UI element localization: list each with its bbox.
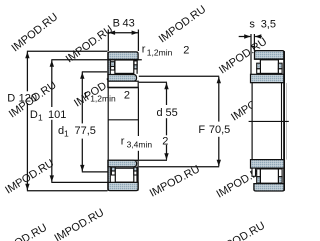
bore rectangle between halves xyxy=(108,88,138,160)
svg-text:D: D xyxy=(7,92,15,104)
cage top (right view) xyxy=(257,63,282,73)
svg-text:101: 101 xyxy=(48,109,66,121)
svg-text:s: s xyxy=(249,19,255,31)
rib lip top xyxy=(251,34,255,74)
rib lip bottom (right view) xyxy=(252,168,256,176)
cage lower right xyxy=(134,167,137,182)
r34min label xyxy=(121,135,169,149)
svg-text:77,5: 77,5 xyxy=(75,125,96,137)
F dimension line xyxy=(139,76,221,167)
svg-text:70,5: 70,5 xyxy=(209,124,230,136)
svg-text:55: 55 xyxy=(166,107,178,119)
svg-text:2: 2 xyxy=(183,44,189,56)
d dimension line xyxy=(139,82,169,160)
left edge lower xyxy=(107,160,109,190)
roller upper xyxy=(115,60,134,73)
B dimension xyxy=(108,30,138,52)
svg-text:r: r xyxy=(121,135,125,147)
svg-text:1,2min: 1,2min xyxy=(90,93,116,103)
roller top (right view) xyxy=(260,60,278,74)
svg-text:1: 1 xyxy=(38,113,43,123)
cage bottom (right view) xyxy=(257,169,282,183)
outer band bottom (right view) xyxy=(254,184,284,191)
svg-text:D: D xyxy=(30,109,38,121)
svg-text:d: d xyxy=(157,107,163,119)
svg-text:F: F xyxy=(198,124,205,136)
inner band top (right view) xyxy=(251,74,285,82)
left edge upper xyxy=(107,52,109,88)
lower bore line xyxy=(107,159,138,161)
outer ring upper band xyxy=(107,52,138,60)
svg-text:2: 2 xyxy=(124,89,130,101)
D1 dimension line xyxy=(50,60,142,183)
roller bottom (right view) xyxy=(260,169,278,183)
cage upper left xyxy=(111,62,115,70)
right edge lower xyxy=(137,160,139,190)
r12min label top right xyxy=(142,43,190,57)
svg-text:1: 1 xyxy=(64,129,69,139)
svg-text:43: 43 xyxy=(123,17,135,29)
bore box (right view) xyxy=(252,51,286,191)
svg-text:2: 2 xyxy=(162,135,168,147)
bore box upper xyxy=(107,81,138,87)
D dimension line xyxy=(25,51,107,191)
svg-text:r: r xyxy=(142,43,146,55)
inner band bottom (right view) xyxy=(251,160,285,169)
s dimension xyxy=(239,34,262,38)
outer ring lower band xyxy=(108,182,138,190)
svg-text:B: B xyxy=(113,17,120,29)
cage upper right xyxy=(134,60,137,74)
svg-text:r: r xyxy=(84,89,88,101)
svg-text:1,2min: 1,2min xyxy=(147,48,173,58)
r12min label middle xyxy=(84,89,130,103)
svg-text:3,5: 3,5 xyxy=(261,19,276,31)
svg-text:120: 120 xyxy=(19,92,37,104)
inner ring upper (flange + band) xyxy=(108,60,137,81)
inner ring lower (band + flange) xyxy=(108,160,137,182)
roller lower xyxy=(115,168,134,182)
cage lower left xyxy=(111,167,115,175)
outer band top (right view) xyxy=(255,51,285,59)
d1 dimension line xyxy=(80,72,108,172)
centerline (right view) xyxy=(249,120,289,122)
svg-text:3,4min: 3,4min xyxy=(127,140,153,150)
